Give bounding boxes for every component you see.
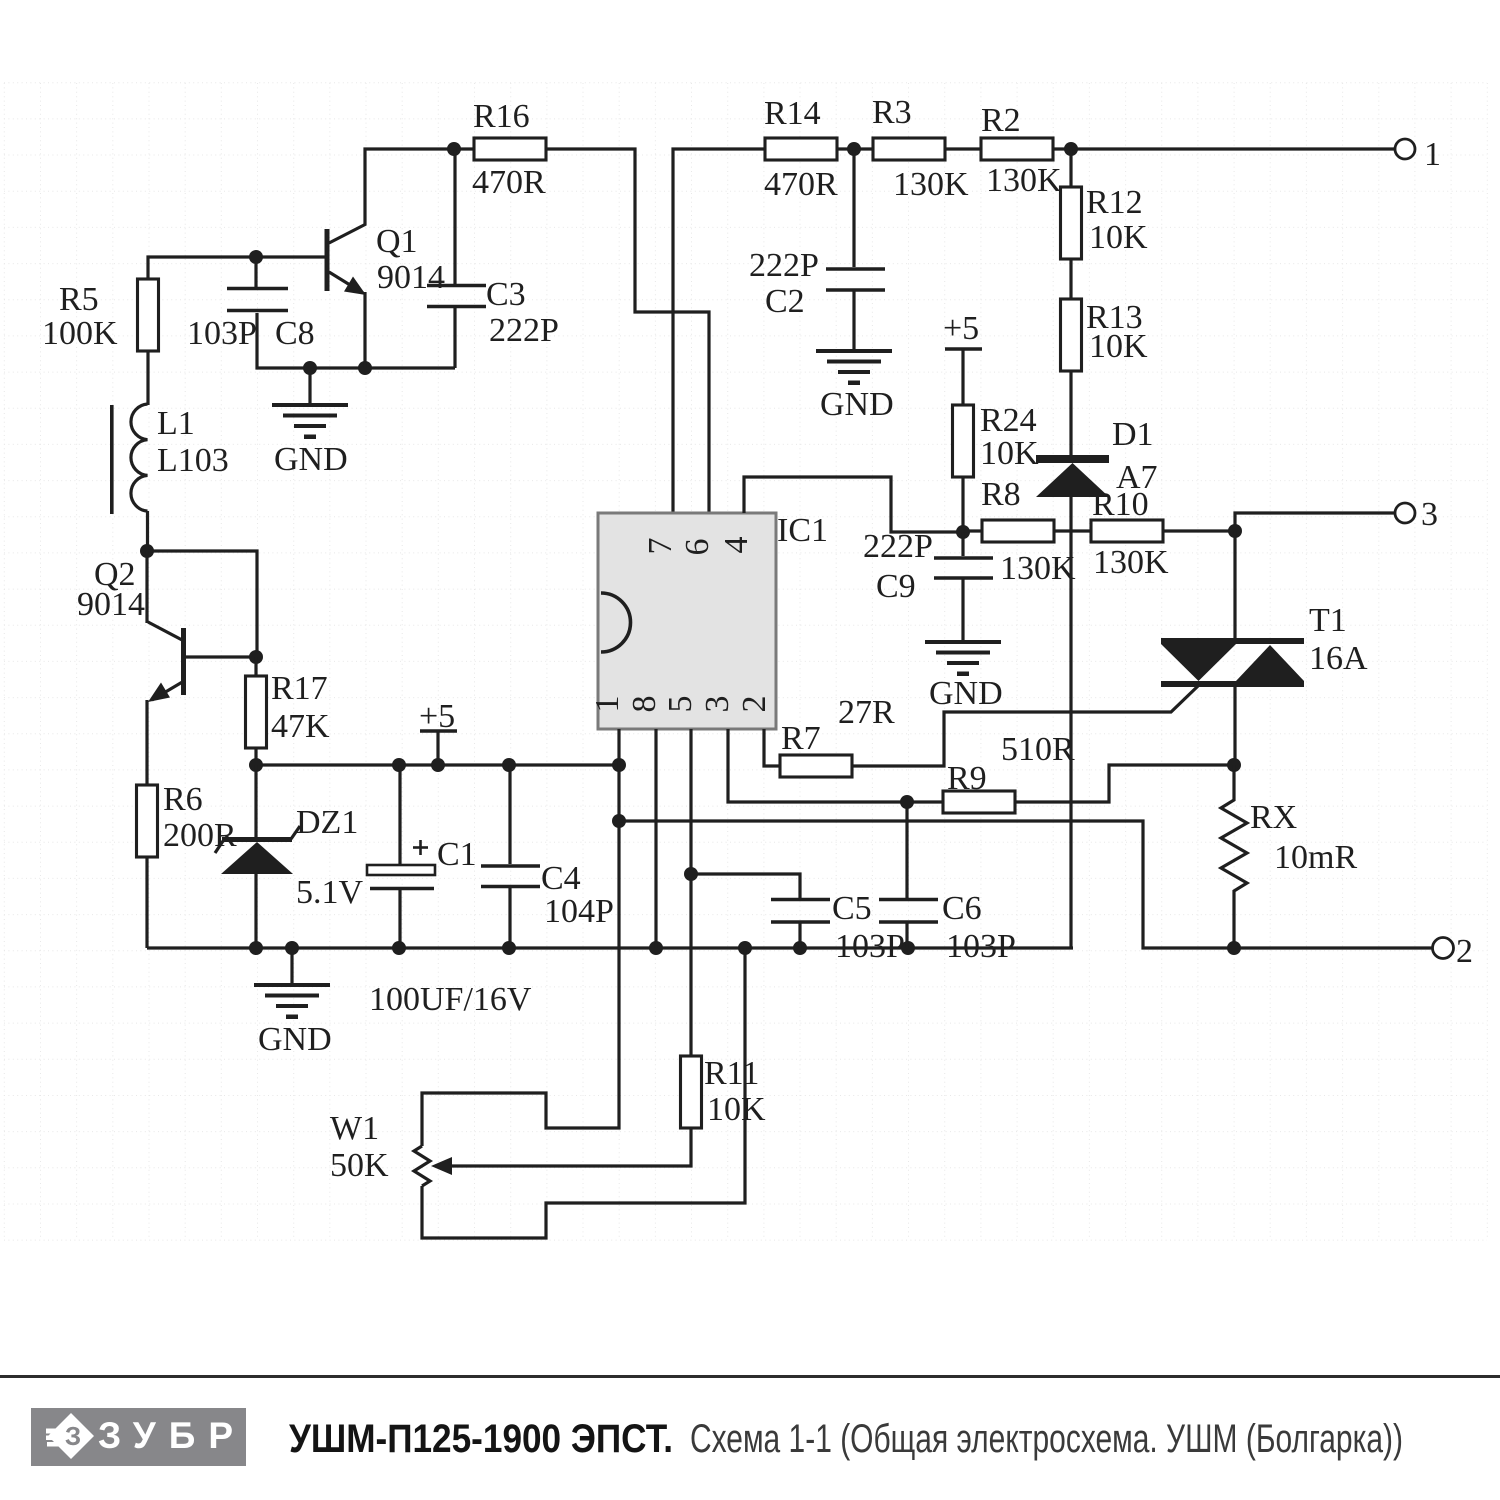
ground C2: [816, 349, 894, 423]
wire node to T1 MT2: [1233, 531, 1236, 640]
junction bus C1: [392, 941, 406, 955]
svg-text:УШМ-П125-1900 ЭПСТ.: УШМ-П125-1900 ЭПСТ.: [289, 1417, 673, 1461]
junction rail +5: [431, 758, 445, 772]
wire R10 to terminal 3: [1163, 513, 1395, 531]
junction bus C6: [901, 941, 915, 955]
capacitor C9: [863, 528, 993, 641]
power +5 (right): [943, 310, 982, 406]
zener diode DZ1: [215, 765, 364, 948]
junction T1 top node: [1228, 524, 1242, 538]
pin 2 label: [736, 696, 773, 713]
pin 7 label: [642, 538, 679, 555]
wire node to R8: [963, 529, 982, 532]
svg-text:Схема 1-1 (Общая электросхема.: Схема 1-1 (Общая электросхема. УШМ (Болг…: [690, 1417, 1403, 1461]
pin 8 label: [626, 696, 663, 713]
junction pin5 C5 node: [684, 867, 698, 881]
wire R2 to terminal 1: [1053, 147, 1395, 150]
junction Q1 base node: [249, 250, 263, 264]
resistor R5: [42, 279, 159, 352]
junction bus C5: [793, 941, 807, 955]
wire R2 node to R12: [1069, 149, 1072, 188]
junction R12 top node: [1064, 142, 1078, 156]
junction rail C1: [392, 758, 406, 772]
junction rail pin1: [612, 758, 626, 772]
junction Q1 emitter: [358, 361, 372, 375]
wire IC1 pin 8 to ground bus: [654, 729, 657, 948]
resistor R12: [1061, 184, 1149, 259]
wire +5 rail: [256, 763, 619, 766]
capacitor C5: [691, 874, 905, 965]
resistor R17: [246, 657, 331, 765]
wire R8 to R10: [1054, 529, 1091, 532]
junction pin3 C6 node: [900, 795, 914, 809]
pin 1 label: [589, 696, 626, 713]
op-amp IC1: [598, 512, 828, 729]
wire W1 wiper to R11: [431, 1127, 691, 1175]
resistor R10: [1091, 486, 1169, 581]
resistor R2: [981, 102, 1062, 199]
wire R7 to T1 gate: [852, 686, 1198, 766]
resistor R6: [137, 781, 238, 948]
pin 4 label: [718, 537, 755, 554]
logo ZUBR box: [31, 1408, 246, 1466]
capacitor C4: [481, 765, 614, 948]
resistor R7: [780, 694, 895, 777]
ground C8: [272, 368, 348, 478]
wire IC1 pin 3 to R9: [728, 729, 943, 802]
wire ground bus: [147, 946, 1073, 949]
logo ЗУБР text: [98, 1415, 246, 1456]
wire node to R17 top: [147, 551, 257, 657]
wire IC1 pin 5 to R11: [689, 729, 692, 1057]
diode D1: [1036, 416, 1158, 497]
wire R3 to R2: [945, 147, 981, 150]
resistor R14: [764, 95, 838, 203]
wire Q2 base: [184, 655, 257, 658]
potentiometer W1: [330, 1110, 430, 1186]
resistor R11: [681, 1055, 767, 1128]
wire IC1 pin 2 to R7: [764, 729, 780, 766]
title: [289, 1417, 1403, 1461]
pin 6 label: [679, 539, 716, 556]
resistor R8: [981, 476, 1076, 587]
junction gnd stem: [303, 361, 317, 375]
power +5 (left): [419, 698, 457, 765]
wire L1 to Q2 node: [146, 511, 149, 551]
junction rail R17: [249, 758, 263, 772]
resistor R9: [943, 731, 1075, 813]
wire R5 to Q1 base: [148, 257, 325, 279]
junction Q2 base node: [249, 650, 263, 664]
inductor L1: [110, 404, 229, 514]
resistor R3: [872, 94, 969, 203]
junction R24 bottom node: [956, 525, 970, 539]
junction pin1 branch: [612, 814, 626, 828]
junction RX bottom node: [1227, 941, 1241, 955]
transistor Q2: [77, 551, 186, 786]
svg-text:ЗУБР: ЗУБР: [98, 1415, 246, 1456]
terminal 1: [1395, 136, 1441, 173]
triac T1: [1161, 602, 1368, 687]
wire R5 to L1: [146, 351, 149, 405]
junction C3 top node: [447, 142, 461, 156]
junction C2 top node: [847, 142, 861, 156]
wire R12 to R13: [1069, 259, 1072, 300]
wire R16 output to IC1 pin 6: [546, 149, 709, 513]
resistor R13: [1061, 299, 1149, 371]
wire pin1 branch to output bus: [619, 821, 1432, 948]
wire W1 bottom to ground bus: [422, 948, 745, 1238]
svg-text:З: З: [65, 1421, 81, 1451]
wire R9 to T1 MT1: [1015, 765, 1234, 802]
junction RX top node: [1227, 758, 1241, 772]
separator line: [0, 1375, 1500, 1378]
wire IC1 pin 4 to R24 node: [744, 477, 963, 532]
terminal 3: [1395, 496, 1438, 533]
junction bus gnd: [285, 941, 299, 955]
ground C9: [925, 640, 1003, 712]
junction bus W1: [738, 941, 752, 955]
wire T1 MT1 to RX node: [1233, 687, 1236, 765]
resistor R16: [472, 98, 546, 201]
wire IC1 pin 1: [617, 729, 620, 765]
junction bus DZ1: [249, 941, 263, 955]
wire D1 to ground bus corner: [1069, 497, 1072, 948]
junction L1 bottom node: [140, 544, 154, 558]
wire R14 to R3: [837, 147, 873, 150]
resistor RX: [1221, 765, 1357, 948]
pin 3 label: [699, 696, 736, 713]
junction bus C4: [502, 941, 516, 955]
capacitor C1 (electrolytic): [367, 765, 532, 1018]
wire Q1 emitter ground bus: [257, 313, 455, 368]
wire top net to IC1 pin 7: [673, 149, 765, 513]
resistor R24: [953, 402, 1040, 532]
terminal 2: [1433, 933, 1474, 970]
wire Q1 collector to R16: [365, 149, 474, 225]
wire pin1 column to W1 top: [422, 765, 619, 1146]
capacitor C8: [187, 257, 315, 352]
pin 5 label: [662, 696, 699, 713]
capacitor C6: [879, 802, 1016, 965]
logo bison emblem: [46, 1413, 94, 1459]
wire R13 to D1: [1069, 371, 1072, 457]
ground main: [254, 948, 332, 1058]
junction bus pin8: [649, 941, 663, 955]
junction rail C4: [502, 758, 516, 772]
capacitor C3: [427, 149, 559, 368]
capacitor C2: [749, 149, 885, 350]
transistor Q1: [325, 223, 446, 368]
